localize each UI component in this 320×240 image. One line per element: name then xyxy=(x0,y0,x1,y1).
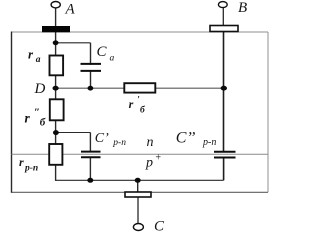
svg-text:r: r xyxy=(25,110,31,125)
svg-text:C’: C’ xyxy=(95,131,109,146)
svg-text:+: + xyxy=(155,152,162,163)
svg-text:p-n: p-n xyxy=(24,163,38,173)
svg-text:б: б xyxy=(40,116,46,128)
svg-text:D: D xyxy=(34,81,46,97)
svg-text:C’’: C’’ xyxy=(176,130,196,147)
svg-text:r: r xyxy=(19,155,24,169)
svg-text:r: r xyxy=(129,97,134,111)
svg-text:p-n: p-n xyxy=(202,137,216,148)
svg-text:n: n xyxy=(147,135,154,150)
svg-text:B: B xyxy=(238,0,247,16)
svg-text:C: C xyxy=(97,44,108,60)
svg-text:p-n: p-n xyxy=(112,138,126,148)
svg-text:p: p xyxy=(145,156,153,171)
svg-text:C: C xyxy=(154,219,165,233)
svg-text:a: a xyxy=(110,53,115,63)
svg-text:a: a xyxy=(36,55,41,65)
svg-text:A: A xyxy=(65,2,76,18)
